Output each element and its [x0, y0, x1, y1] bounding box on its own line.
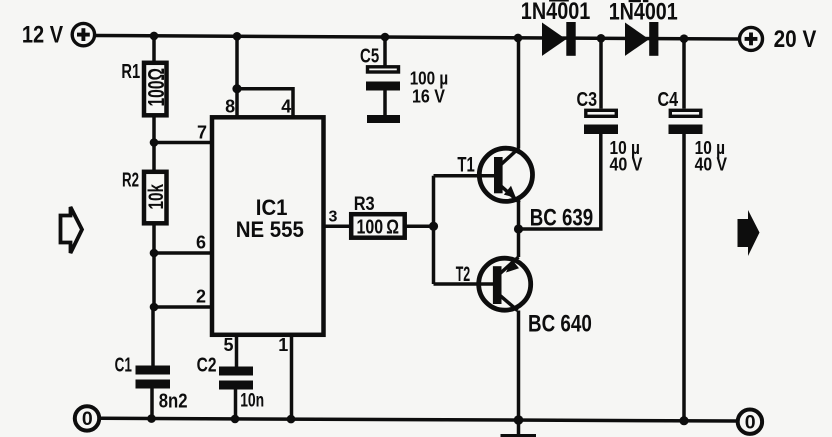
- node junction emitters: [514, 224, 523, 233]
- terminal +12V: [72, 23, 94, 45]
- wire R1 to node: [152, 114, 156, 142]
- svg-text:8: 8: [225, 96, 235, 116]
- svg-text:R3: R3: [354, 194, 375, 215]
- wire T2 collector to 0V rail: [517, 311, 521, 421]
- wire top supply rail 12V: [96, 36, 738, 40]
- svg-text:C4: C4: [658, 89, 679, 111]
- wire pin 7: [154, 141, 212, 145]
- node input arrow: [61, 207, 83, 253]
- svg-text:5: 5: [224, 335, 234, 355]
- svg-text:C3: C3: [577, 89, 598, 111]
- node junction D2 / C4: [680, 34, 689, 43]
- svg-text:R1: R1: [121, 61, 140, 83]
- wire rail to R1: [152, 36, 156, 62]
- svg-text:7: 7: [197, 123, 207, 143]
- node junction D1/D2/C3: [597, 34, 606, 43]
- node junction base link: [429, 222, 438, 231]
- op-amp IC1 NE555 box: [212, 117, 324, 334]
- node junction top rail / R1: [150, 32, 159, 41]
- wire rail to C5: [383, 37, 387, 67]
- resistor R3: [351, 214, 405, 238]
- svg-text:3: 3: [329, 209, 338, 226]
- wire bottom 0V rail: [101, 418, 737, 421]
- terminal 0V left: [75, 406, 99, 430]
- svg-text:BC 640: BC 640: [528, 310, 592, 337]
- wire C5 to ground: [383, 91, 387, 116]
- svg-text:10n: 10n: [240, 390, 264, 411]
- wire C1 to 0V rail: [150, 389, 154, 419]
- wire node to C3: [519, 132, 601, 229]
- wire R3 to base node: [405, 224, 434, 228]
- svg-text:4: 4: [281, 96, 291, 116]
- wire T1 emitter to node: [517, 200, 521, 229]
- wire pin 6: [154, 251, 212, 255]
- transistor T1 BC639: [479, 148, 532, 203]
- wire rail to C4: [682, 39, 686, 109]
- capacitor C4: [669, 110, 703, 134]
- resistor R1: [143, 63, 169, 116]
- terminal +20V: [740, 27, 763, 50]
- svg-text:C5: C5: [360, 46, 379, 68]
- svg-text:C2: C2: [197, 354, 217, 376]
- svg-text:0: 0: [82, 408, 93, 430]
- svg-text:1N4001: 1N4001: [521, 0, 591, 25]
- node junction pin8/pin4 link: [232, 84, 241, 93]
- svg-text:C1: C1: [115, 354, 132, 376]
- svg-text:T1: T1: [457, 153, 475, 176]
- node junction pin 6: [150, 249, 159, 258]
- svg-text:R2: R2: [122, 170, 139, 192]
- svg-text:8n2: 8n2: [159, 390, 188, 413]
- wire pin 5 to C2: [235, 335, 239, 367]
- svg-text:10k: 10k: [144, 184, 168, 210]
- svg-text:40 V: 40 V: [695, 154, 728, 175]
- svg-text:20 V: 20 V: [774, 26, 817, 53]
- wire pin 1 to 0V rail: [290, 335, 294, 419]
- capacitor C2: [219, 367, 253, 390]
- wire pin 8: [235, 36, 239, 117]
- wire T1 collector to rail: [517, 38, 521, 149]
- svg-text:NE 555: NE 555: [236, 217, 304, 242]
- label D2 (cropped at top edge): [549, 0, 648, 2]
- svg-text:T2: T2: [456, 263, 471, 286]
- svg-text:12 V: 12 V: [22, 21, 63, 48]
- wire pin 2: [154, 305, 212, 309]
- node junction top rail / pin 8: [233, 32, 242, 41]
- node output arrow: [738, 210, 760, 256]
- wire T1 base: [434, 174, 495, 178]
- capacitor C5: [366, 67, 400, 91]
- node junction pin 2: [150, 303, 159, 312]
- svg-text:2: 2: [196, 287, 206, 307]
- wire node to pin2 node: [152, 253, 156, 307]
- capacitor C1: [136, 366, 171, 389]
- wire ground stub: [517, 420, 521, 435]
- diode D1 1N4001: [542, 22, 576, 56]
- svg-text:100Ω: 100Ω: [143, 68, 169, 107]
- node junction rail / T1 collector: [514, 34, 523, 43]
- wire pin 3: [324, 224, 352, 228]
- node junction pin1 / 0V rail: [287, 415, 296, 424]
- svg-text:6: 6: [196, 233, 206, 253]
- svg-text:0: 0: [745, 412, 756, 434]
- wire C4 to 0V rail: [682, 134, 686, 421]
- node junction C4 / 0V rail: [679, 416, 688, 425]
- wire R2 to pin6 node: [152, 223, 156, 253]
- svg-text:16 V: 16 V: [412, 86, 446, 107]
- node junction 0V rail / ground: [514, 415, 524, 425]
- wire base link vertical: [432, 176, 436, 284]
- node junction top rail / C5: [381, 33, 390, 42]
- wire pin 4 link: [237, 89, 293, 118]
- wire rail to C3: [599, 38, 603, 108]
- diode D2 1N4001: [625, 22, 658, 56]
- capacitor C3: [584, 110, 618, 134]
- ground: [501, 434, 537, 437]
- terminal 0V right: [738, 410, 762, 434]
- node junction C2 / 0V rail: [231, 415, 240, 424]
- wire T2 emitter to node: [517, 229, 521, 257]
- wire node to C1: [151, 307, 155, 367]
- svg-text:100 Ω: 100 Ω: [357, 215, 400, 238]
- resistor R2: [144, 172, 168, 224]
- svg-text:40 V: 40 V: [610, 154, 643, 175]
- node junction R1/R2/pin7: [150, 138, 159, 147]
- svg-text:1: 1: [278, 335, 288, 355]
- svg-text:1N4001: 1N4001: [609, 0, 678, 26]
- wire C2 to 0V rail: [234, 390, 238, 419]
- transistor T2 BC640: [479, 257, 531, 311]
- node junction C1 / 0V rail: [147, 414, 156, 423]
- wire node to R2: [152, 143, 156, 174]
- wire T2 base: [434, 282, 494, 286]
- ground C5: [367, 115, 400, 123]
